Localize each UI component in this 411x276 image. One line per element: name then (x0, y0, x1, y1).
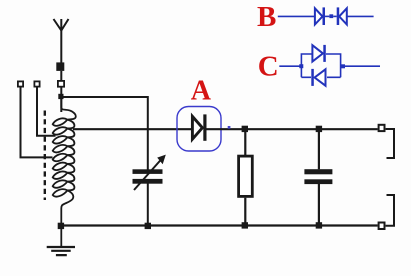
B wire left (278, 15, 315, 17)
variable capacitor top plate (133, 169, 163, 174)
output terminal bottom (open square) (379, 223, 385, 230)
C left node dot (299, 64, 303, 68)
ground symbol (47, 247, 75, 255)
left terminal 1 (open square) (18, 81, 23, 86)
resistor R lead top (244, 132, 246, 156)
variable capacitor bottom plate (133, 179, 163, 184)
output stub top (386, 129, 394, 158)
B diode 1 triangle (315, 8, 323, 24)
B wire mid-right (333, 15, 337, 17)
C right node dot (341, 64, 345, 68)
capacitor C lead bottom (318, 184, 320, 223)
diode A cathode bar (203, 114, 206, 140)
wire terminal 2 to coil tap (37, 88, 56, 136)
ground junction (58, 223, 64, 229)
wire diode A to output (207, 128, 378, 130)
capacitor C lead top (318, 132, 320, 169)
wire (60, 71, 62, 80)
C wire left (279, 65, 301, 67)
B wire right (348, 15, 374, 17)
wire terminal 1 to coil tap (21, 88, 53, 158)
junction capacitor bottom (316, 222, 322, 228)
junction vcap bottom (145, 223, 151, 229)
core (dashed line) (44, 111, 46, 201)
svg-text:C: C (258, 50, 279, 82)
B diode 2 triangle (339, 8, 347, 24)
bottom wire (61, 224, 378, 226)
capacitor C top plate (304, 169, 332, 174)
output terminal top (open square) (379, 125, 385, 131)
C bottom diode bar (311, 69, 314, 86)
diode A highlight box (177, 107, 221, 152)
wire to variable capacitor (crosses main wire) (62, 97, 148, 170)
junction top wire / resistor (242, 126, 248, 132)
left terminal 2 (open square) (34, 81, 39, 86)
antenna connector (filled square) (56, 62, 64, 71)
junction resistor bottom (242, 222, 248, 228)
inductor coil L1 (53, 96, 76, 246)
B diode 1 bar (323, 7, 326, 25)
C bottom diode triangle (315, 69, 326, 85)
main wire coil to diode A (73, 128, 191, 130)
output stub bottom (386, 195, 394, 226)
svg-text:B: B (257, 1, 276, 33)
diode A (triangle outline) (192, 116, 202, 139)
svg-text:A: A (191, 75, 212, 106)
C top diode triangle (312, 45, 323, 61)
C parallel box wires (301, 54, 340, 77)
small blue node dot (228, 126, 231, 129)
resistor R lead bottom (244, 198, 246, 223)
antenna tap terminal (open square) (58, 81, 64, 87)
B diode 2 bar (337, 7, 340, 25)
capacitor C bottom plate (304, 179, 332, 184)
variable capacitor arrow (134, 159, 162, 191)
wire (60, 87, 62, 112)
B wire mid-left (325, 15, 329, 17)
C top diode bar (323, 45, 326, 62)
wire antenna lead (60, 30, 62, 63)
resistor R body (239, 156, 253, 196)
junction node (58, 94, 63, 99)
antenna (54, 19, 69, 31)
C wire right (343, 65, 380, 67)
junction top wire / capacitor (316, 126, 322, 132)
variable capacitor lower lead (147, 184, 149, 224)
B mid node dot (329, 14, 333, 18)
